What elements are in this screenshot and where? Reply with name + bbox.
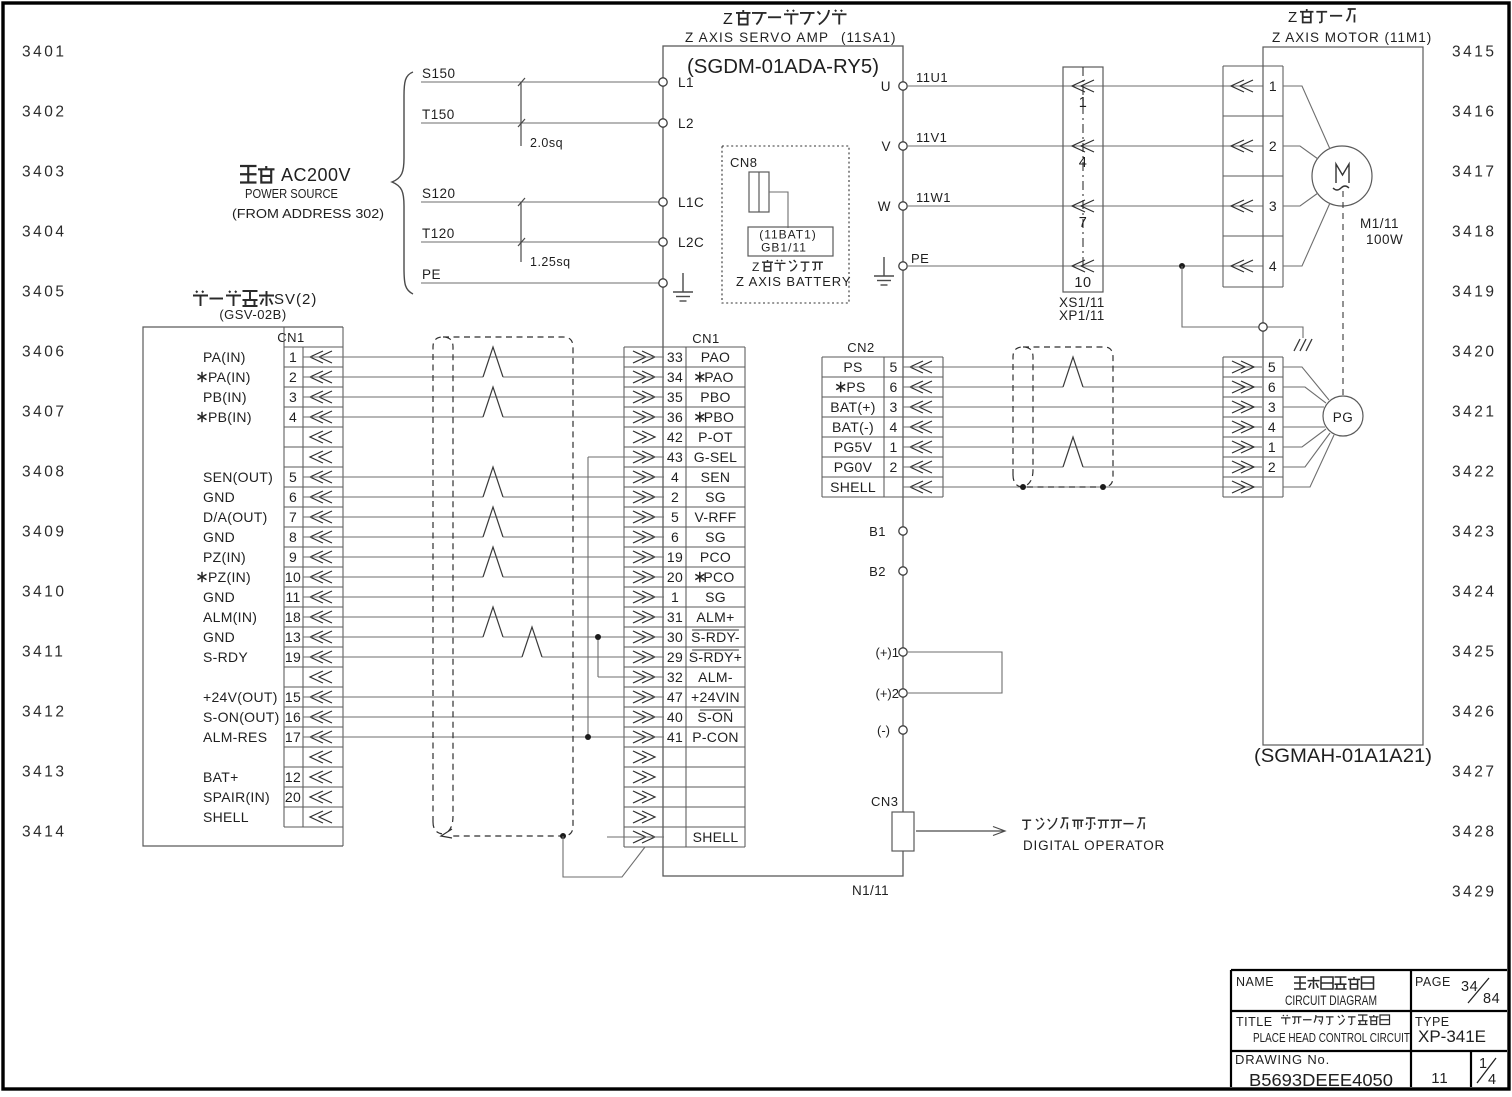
- svg-text:PG5V: PG5V: [834, 439, 873, 455]
- svg-text:3421: 3421: [1452, 404, 1496, 421]
- svg-text:L1C: L1C: [678, 195, 704, 210]
- label ディジタルオペレータ: [1022, 818, 1145, 829]
- label Z軸サーボアンプ: [723, 10, 847, 28]
- svg-text:SV(2): SV(2): [274, 291, 317, 308]
- wire *PBO: [303, 416, 483, 418]
- svg-text:2: 2: [1268, 459, 1276, 475]
- svg-text:SHELL: SHELL: [693, 829, 739, 845]
- svg-text:PE: PE: [911, 251, 929, 266]
- svg-text:20: 20: [285, 789, 301, 805]
- svg-text:PA(IN): PA(IN): [203, 349, 246, 365]
- svg-text:16: 16: [285, 709, 301, 725]
- motor M1 box outline: [1263, 47, 1423, 745]
- svg-text:S-RDY: S-RDY: [203, 649, 248, 665]
- terminal B2: [899, 567, 907, 575]
- svg-text:GND: GND: [203, 529, 235, 545]
- shield drain junction dot (left): [560, 833, 566, 839]
- svg-text:11W1: 11W1: [916, 190, 951, 205]
- shield arrow decoration: [441, 829, 452, 838]
- svg-text:100W: 100W: [1366, 232, 1403, 247]
- svg-text:29: 29: [667, 649, 683, 665]
- wire ALM+: [303, 616, 664, 618]
- board CN1 pin labels: [198, 349, 302, 825]
- wire S120 to L1C: [421, 201, 659, 203]
- svg-text:20: 20: [667, 569, 683, 585]
- svg-text:SHELL: SHELL: [830, 479, 876, 495]
- junction dot PE wire: [1179, 263, 1185, 269]
- wire PG0V to PG: [903, 466, 1063, 468]
- svg-text:PZ(IN): PZ(IN): [208, 569, 251, 585]
- svg-text:GND: GND: [203, 489, 235, 505]
- twisted pair symbol: [483, 607, 503, 637]
- svg-text:4: 4: [889, 419, 897, 435]
- svg-text:(+)2: (+)2: [876, 686, 899, 701]
- svg-text:19: 19: [285, 649, 301, 665]
- svg-text:DIGITAL OPERATOR: DIGITAL OPERATOR: [1023, 838, 1165, 853]
- svg-text:PB(IN): PB(IN): [208, 409, 252, 425]
- svg-text:3408: 3408: [22, 464, 66, 481]
- svg-text:1: 1: [1268, 439, 1276, 455]
- svg-text:L2: L2: [678, 116, 694, 131]
- svg-text:(-): (-): [877, 723, 890, 738]
- label 電気回路線図: [1294, 977, 1374, 989]
- svg-text:SEN(OUT): SEN(OUT): [203, 469, 273, 485]
- svg-text:PG: PG: [1333, 410, 1354, 425]
- wire P-CON: [303, 736, 664, 738]
- svg-text:9: 9: [289, 549, 297, 565]
- svg-text:3: 3: [1269, 198, 1277, 214]
- svg-text:PB(IN): PB(IN): [203, 389, 247, 405]
- wire S150 to L1: [421, 81, 659, 83]
- title block outline: [1231, 970, 1507, 1087]
- svg-text:4: 4: [671, 469, 679, 485]
- twisted pair symbol: [1063, 437, 1083, 467]
- svg-text:(SGDM-01ADA-RY5): (SGDM-01ADA-RY5): [687, 56, 879, 78]
- svg-text:6: 6: [671, 529, 679, 545]
- svg-text:SPAIR(IN): SPAIR(IN): [203, 789, 270, 805]
- svg-text:1: 1: [1079, 95, 1088, 111]
- twisted pair symbol: [483, 347, 503, 377]
- svg-text:B5693DEEE4050: B5693DEEE4050: [1249, 1070, 1393, 1090]
- wire PE to chassis ground: [1182, 266, 1303, 338]
- wire SHELL to PG: [903, 486, 1262, 488]
- terminal L2C: [659, 238, 667, 246]
- svg-text:XP1/11: XP1/11: [1059, 308, 1105, 323]
- wire link G-SEL to P-CON: [588, 456, 664, 458]
- svg-text:Z AXIS MOTOR (11M1): Z AXIS MOTOR (11M1): [1272, 30, 1432, 45]
- svg-text:2: 2: [1269, 138, 1277, 154]
- svg-text:3425: 3425: [1452, 644, 1496, 661]
- svg-text:SG: SG: [705, 489, 726, 505]
- svg-text:P-CON: P-CON: [692, 729, 739, 745]
- svg-text:1: 1: [1269, 78, 1277, 94]
- svg-text:L1: L1: [678, 75, 694, 90]
- board CN1 arrows: [310, 351, 332, 823]
- svg-text:13: 13: [285, 629, 301, 645]
- wire SG6: [303, 536, 483, 538]
- twisted pair symbol: [1063, 357, 1083, 387]
- svg-text:3407: 3407: [22, 404, 66, 421]
- svg-text:5: 5: [289, 469, 297, 485]
- svg-text:Z: Z: [752, 260, 760, 274]
- dashed shaft M to PG: [1342, 191, 1344, 396]
- svg-text:(11SA1): (11SA1): [841, 30, 897, 45]
- chassis ground symbol: [1294, 339, 1312, 351]
- svg-text:S120: S120: [422, 186, 456, 201]
- svg-text:DRAWING No.: DRAWING No.: [1235, 1052, 1330, 1067]
- svg-text:4: 4: [1269, 258, 1277, 274]
- connector CN3 box: [892, 812, 914, 851]
- svg-text:3405: 3405: [22, 284, 66, 301]
- svg-text:1: 1: [1479, 1056, 1488, 1072]
- svg-text:+24VIN: +24VIN: [691, 689, 740, 705]
- terminal L1C: [659, 198, 667, 206]
- svg-text:3426: 3426: [1452, 704, 1496, 721]
- svg-text:5: 5: [889, 359, 897, 375]
- svg-text:10: 10: [1074, 275, 1091, 291]
- terminal L1: [659, 78, 667, 86]
- cable shield outline (encoder cable): [1013, 347, 1113, 487]
- svg-text:ALM-: ALM-: [698, 669, 733, 685]
- svg-text:S-ON(OUT): S-ON(OUT): [203, 709, 280, 725]
- wire *PAO: [303, 376, 483, 378]
- svg-text:2: 2: [289, 369, 297, 385]
- svg-text:2: 2: [671, 489, 679, 505]
- motor power connector table: [1223, 66, 1283, 287]
- svg-text:47: 47: [667, 689, 683, 705]
- wire SEN: [303, 476, 664, 478]
- wire PS to PG: [903, 366, 1262, 368]
- svg-text:33: 33: [667, 349, 683, 365]
- CN2 arrows: [910, 361, 932, 493]
- svg-text:PG0V: PG0V: [834, 459, 873, 475]
- svg-text:U: U: [881, 79, 891, 94]
- wire BAT- to PG: [903, 426, 1262, 428]
- connector CN1 amp-side table: [624, 347, 745, 847]
- svg-text:3410: 3410: [22, 584, 66, 601]
- svg-text:B1: B1: [869, 524, 886, 539]
- terminal (+)1: [899, 648, 907, 656]
- svg-text:V-RFF: V-RFF: [695, 509, 737, 525]
- CN2 pin labels: [830, 359, 897, 495]
- svg-text:PS: PS: [846, 379, 865, 395]
- svg-text:4: 4: [1268, 419, 1276, 435]
- svg-text:3419: 3419: [1452, 284, 1496, 301]
- wire S-RDY-: [303, 636, 483, 638]
- wire BAT+ to PG: [903, 406, 1262, 408]
- svg-text:S150: S150: [422, 66, 456, 81]
- twisted pair symbol: [522, 627, 542, 657]
- svg-text:V: V: [881, 139, 891, 154]
- svg-text:GND: GND: [203, 589, 235, 605]
- svg-text:3406: 3406: [22, 344, 66, 361]
- terminal U: [899, 82, 907, 90]
- svg-text:3418: 3418: [1452, 224, 1496, 241]
- junction dot on P-CON wire: [585, 734, 591, 740]
- svg-text:SEN: SEN: [701, 469, 731, 485]
- cable shield outline (left cable): [433, 337, 573, 836]
- wire link S-RDY- to ALM-: [597, 637, 599, 677]
- amp CN1 pin labels: [667, 349, 742, 845]
- wire *PCO: [303, 576, 483, 578]
- svg-text:4: 4: [1488, 1072, 1497, 1088]
- wire SG2: [303, 496, 483, 498]
- twisted pair symbol: [483, 547, 503, 577]
- svg-text:PBO: PBO: [704, 409, 734, 425]
- svg-text:CN1: CN1: [277, 330, 305, 345]
- svg-text:35: 35: [667, 389, 683, 405]
- svg-text:3: 3: [1268, 399, 1276, 415]
- svg-text:5: 5: [671, 509, 679, 525]
- wire T150 to L2: [421, 122, 659, 124]
- svg-text:3413: 3413: [22, 764, 66, 781]
- svg-text:Z: Z: [1288, 9, 1298, 26]
- svg-text:W: W: [878, 199, 891, 214]
- earth ground symbol at amp left PE: [673, 273, 693, 301]
- svg-text:PCO: PCO: [703, 569, 734, 585]
- svg-text:3401: 3401: [22, 44, 66, 61]
- svg-text:7: 7: [289, 509, 297, 525]
- wire S-ON: [303, 716, 664, 718]
- svg-text:34: 34: [1461, 979, 1478, 995]
- svg-text:7: 7: [1079, 215, 1088, 231]
- svg-text:N1/11: N1/11: [852, 883, 889, 898]
- svg-text:36: 36: [667, 409, 683, 425]
- terminal PE (amp left): [659, 279, 667, 287]
- svg-text:3417: 3417: [1452, 164, 1496, 181]
- svg-text:3416: 3416: [1452, 104, 1496, 121]
- svg-text:1: 1: [289, 349, 297, 365]
- svg-text:43: 43: [667, 449, 683, 465]
- svg-text:34: 34: [667, 369, 683, 385]
- svg-text:3422: 3422: [1452, 464, 1496, 481]
- wire PE to motor: [907, 265, 1263, 267]
- svg-text:PZ(IN): PZ(IN): [203, 549, 246, 565]
- svg-text:XP-341E: XP-341E: [1418, 1027, 1486, 1046]
- svg-text:(GSV-02B): (GSV-02B): [219, 307, 286, 322]
- svg-text:SG: SG: [705, 589, 726, 605]
- svg-text:PAO: PAO: [701, 349, 730, 365]
- XS/XP arrows and pin numbers: [1072, 80, 1094, 291]
- wire T120 to L2C: [421, 241, 659, 243]
- svg-text:42: 42: [667, 429, 683, 445]
- wire PG5V to PG: [903, 446, 1262, 448]
- svg-text:T120: T120: [422, 226, 455, 241]
- wire V-RFF: [303, 516, 664, 518]
- terminal (-): [899, 726, 907, 734]
- svg-text:Z AXIS SERVO AMP: Z AXIS SERVO AMP: [685, 30, 829, 45]
- svg-text:1: 1: [671, 589, 679, 605]
- svg-text:SG: SG: [705, 529, 726, 545]
- shield drain wire to amp CN1 shell: [563, 836, 645, 877]
- svg-text:6: 6: [1268, 379, 1276, 395]
- shield junction dot right: [1100, 484, 1106, 490]
- svg-text:3427: 3427: [1452, 764, 1496, 781]
- shield junction dot left: [1020, 484, 1026, 490]
- svg-text:P-OT: P-OT: [698, 429, 733, 445]
- svg-text:CN8: CN8: [730, 155, 758, 170]
- svg-text:G-SEL: G-SEL: [694, 449, 738, 465]
- svg-text:6: 6: [889, 379, 897, 395]
- svg-text:TITLE: TITLE: [1236, 1015, 1273, 1029]
- svg-text:8: 8: [289, 529, 297, 545]
- motor M circle: [1312, 146, 1372, 206]
- label 電源 AC200V (power source): [240, 166, 275, 183]
- svg-text:31: 31: [667, 609, 683, 625]
- amp CN1 arrows: [633, 351, 655, 843]
- wire PCO: [303, 556, 664, 558]
- svg-text:CN1: CN1: [692, 331, 720, 346]
- label プレースヘッド制御回路: [1281, 1015, 1390, 1025]
- svg-text:3414: 3414: [22, 824, 66, 841]
- right margin line numbers 3415-3429: [1452, 44, 1496, 901]
- svg-text:84: 84: [1483, 991, 1500, 1007]
- connector CN1 board-side table: [284, 327, 343, 846]
- amp CN1 SHELL stub wire: [607, 836, 664, 838]
- svg-text:SHELL: SHELL: [203, 809, 249, 825]
- brace grouping power wires: [392, 72, 413, 294]
- terminal circle on motor frame: [1259, 323, 1267, 331]
- wire PAO: [303, 356, 664, 358]
- svg-text:AC200V: AC200V: [281, 165, 351, 185]
- svg-text:M1/11: M1/11: [1360, 216, 1399, 231]
- svg-text:3409: 3409: [22, 524, 66, 541]
- svg-text:32: 32: [667, 669, 683, 685]
- svg-text:BAT+: BAT+: [203, 769, 239, 785]
- svg-text:S-RDY-: S-RDY-: [691, 629, 740, 645]
- svg-text:PAGE: PAGE: [1415, 975, 1451, 989]
- earth ground symbol at amp right PE: [874, 257, 894, 285]
- svg-text:3415: 3415: [1452, 44, 1496, 61]
- svg-text:Z AXIS BATTERY: Z AXIS BATTERY: [736, 274, 851, 289]
- terminal B1: [899, 527, 907, 535]
- svg-text:Z: Z: [723, 11, 733, 28]
- arrow to digital operator: [916, 830, 1004, 832]
- svg-text:(+)1: (+)1: [876, 645, 899, 660]
- svg-text:40: 40: [667, 709, 683, 725]
- svg-text:17: 17: [285, 729, 301, 745]
- svg-text:1: 1: [889, 439, 897, 455]
- wires connector to M: [1283, 86, 1330, 149]
- svg-text:BAT(-): BAT(-): [832, 419, 874, 435]
- wire PBO: [303, 396, 664, 398]
- CN8 dotted enclosure: [722, 146, 849, 303]
- svg-text:11: 11: [285, 589, 300, 605]
- wire +24VIN: [303, 696, 664, 698]
- svg-text:11U1: 11U1: [916, 70, 948, 85]
- servo amp U1 box outline: [663, 46, 903, 876]
- battery GB1/11 box: [748, 227, 833, 256]
- svg-text:ALM-RES: ALM-RES: [203, 729, 267, 745]
- twisted pair symbol: [483, 507, 503, 537]
- label サーボ基板SV(2): [193, 291, 317, 308]
- wire CN8 to battery: [769, 192, 788, 228]
- svg-text:PE: PE: [422, 267, 441, 282]
- svg-text:(FROM ADDRESS 302): (FROM ADDRESS 302): [232, 206, 384, 221]
- svg-text:3: 3: [289, 389, 297, 405]
- svg-text:PS: PS: [843, 359, 862, 375]
- svg-text:3428: 3428: [1452, 824, 1496, 841]
- twisted pair symbol: [483, 467, 503, 497]
- svg-text:18: 18: [285, 609, 301, 625]
- label Z軸バッテリ: [752, 260, 823, 274]
- wire *PS to PG: [903, 386, 1063, 388]
- svg-text:3412: 3412: [22, 704, 66, 721]
- svg-text:S-RDY+: S-RDY+: [689, 649, 743, 665]
- svg-text:NAME: NAME: [1236, 975, 1274, 989]
- svg-text:3402: 3402: [22, 104, 66, 121]
- wire SG1: [303, 596, 664, 598]
- wire 11V1: [907, 145, 1263, 147]
- terminal W: [899, 202, 907, 210]
- svg-text:D/A(OUT): D/A(OUT): [203, 509, 268, 525]
- wire gauge marker 1.25sq: [520, 202, 522, 262]
- svg-text:3423: 3423: [1452, 524, 1496, 541]
- svg-text:3424: 3424: [1452, 584, 1496, 601]
- svg-text:POWER SOURCE: POWER SOURCE: [245, 186, 338, 201]
- svg-text:(11BAT1): (11BAT1): [759, 228, 817, 242]
- svg-text:PCO: PCO: [700, 549, 731, 565]
- svg-text:3420: 3420: [1452, 344, 1496, 361]
- wire gauge marker 2.0sq: [520, 82, 522, 146]
- wire 11W1: [907, 205, 1263, 207]
- svg-text:6: 6: [289, 489, 297, 505]
- svg-text:4: 4: [289, 409, 297, 425]
- svg-text:CN2: CN2: [847, 340, 875, 355]
- svg-text:15: 15: [285, 689, 301, 705]
- svg-text:10: 10: [285, 569, 301, 585]
- terminal V: [899, 142, 907, 150]
- svg-text:3411: 3411: [22, 644, 65, 661]
- svg-text:CN3: CN3: [871, 794, 899, 809]
- svg-text:PLACE HEAD CONTROL CIRCUIT: PLACE HEAD CONTROL CIRCUIT: [1253, 1030, 1410, 1045]
- svg-text:1.25sq: 1.25sq: [530, 255, 571, 269]
- wire 11U1: [907, 85, 1263, 87]
- servo board SV2 box outline: [143, 327, 343, 846]
- label Z軸モータ: [1288, 9, 1356, 26]
- wires PG connector to PG: [1283, 367, 1329, 400]
- svg-text:2: 2: [889, 459, 897, 475]
- svg-text:PAO: PAO: [704, 369, 733, 385]
- svg-text:GND: GND: [203, 629, 235, 645]
- svg-text:CIRCUIT DIAGRAM: CIRCUIT DIAGRAM: [1285, 993, 1377, 1008]
- motor PG connector table: [1223, 357, 1283, 497]
- svg-text:ALM(IN): ALM(IN): [203, 609, 257, 625]
- svg-text:GB1/11: GB1/11: [761, 241, 807, 255]
- svg-text:ALM+: ALM+: [696, 609, 734, 625]
- wire PE to amp ground terminal: [421, 282, 659, 284]
- left margin line numbers 3401-3414: [22, 44, 66, 841]
- svg-text:3: 3: [889, 399, 897, 415]
- svg-text:3404: 3404: [22, 224, 66, 241]
- connector CN2 table: [822, 357, 943, 497]
- svg-text:5: 5: [1268, 359, 1276, 375]
- svg-text:4: 4: [1079, 155, 1088, 171]
- terminal PE (amp right): [899, 262, 907, 270]
- wire S-RDY+: [303, 656, 522, 658]
- svg-text:T150: T150: [422, 107, 455, 122]
- svg-text:19: 19: [667, 549, 683, 565]
- XS/XP split dash-dot line: [1082, 67, 1084, 270]
- terminal (+)2: [899, 689, 907, 697]
- svg-text:PA(IN): PA(IN): [208, 369, 251, 385]
- regen jumper wire (+)1 to (+)2: [907, 652, 1002, 693]
- svg-text:3429: 3429: [1452, 884, 1496, 901]
- svg-text:2.0sq: 2.0sq: [530, 136, 563, 150]
- svg-text:PBO: PBO: [700, 389, 730, 405]
- svg-text:B2: B2: [869, 564, 886, 579]
- svg-text:(SGMAH-01A1A21): (SGMAH-01A1A21): [1254, 746, 1432, 767]
